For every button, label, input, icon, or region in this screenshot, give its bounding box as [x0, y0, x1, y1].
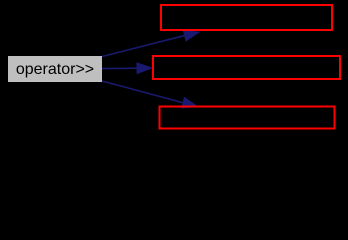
arrowhead: edge to bottom node [181, 97, 199, 109]
node: top truncated node (red outline) [161, 5, 332, 30]
edge: operator>> to bottom node [102, 81, 183, 103]
arrowhead: edge to top node [183, 30, 201, 42]
edge: operator>> to top node [102, 36, 184, 57]
edge: operator>> to middle node [102, 67, 137, 69]
node operator>> (current node, grey) [8, 56, 102, 82]
svg-text:operator>>: operator>> [16, 61, 94, 78]
arrowhead: edge to middle node [136, 62, 153, 74]
node: bottom truncated node (red outline) [160, 107, 335, 129]
node: middle truncated node (red outline) [153, 56, 340, 79]
